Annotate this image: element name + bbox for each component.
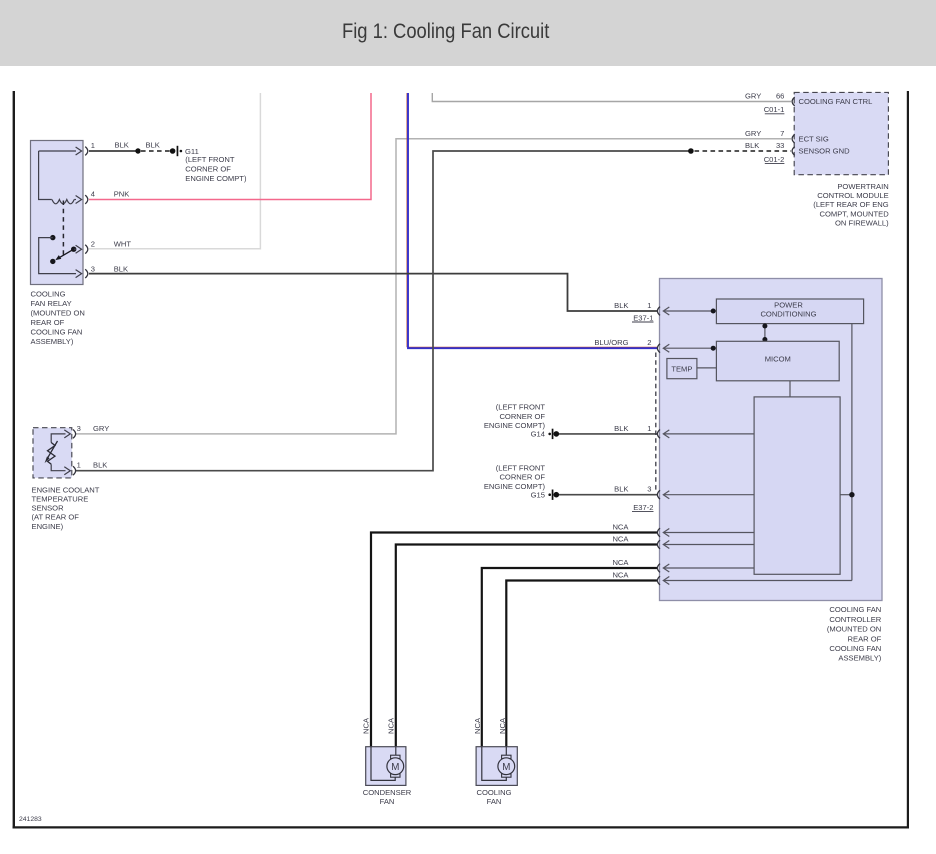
cooling fan internal right wire [505,747,507,756]
relay switch blade [58,249,74,259]
ground G14 splice dot [554,431,560,437]
svg-text:66: 66 [776,92,784,101]
header bar [0,0,936,66]
link micom to output driver [789,381,791,397]
relay internal wire to pin 1 [39,150,76,152]
controller NCA row1 arrow [663,529,669,537]
svg-text:ASSEMBLY): ASSEMBLY) [838,654,881,663]
svg-text:7: 7 [780,129,784,138]
svg-text:COOLING FAN: COOLING FAN [31,328,83,337]
controller pin G14 arrow [663,430,669,438]
svg-text:NCA: NCA [498,717,507,734]
controller internal wire NCA row1 [664,532,754,534]
relay switch pin2 contact dot [71,247,76,252]
svg-text:BLK: BLK [614,301,628,310]
cooling fan internal left wire [482,747,507,781]
relay switch wire to pin 3 [39,238,76,274]
svg-text:1: 1 [91,141,95,150]
svg-text:NCA: NCA [612,535,629,544]
condenser fan motor circle [387,758,404,775]
svg-text:BLK: BLK [114,264,128,273]
controller internal wire NCA row2 [664,544,754,546]
svg-text:COOLING: COOLING [31,289,66,298]
svg-text:G14: G14 [531,430,545,439]
ground G14 bar [552,429,554,439]
relay coil to pin 4 [74,199,76,201]
wire BLK G15 to controller pin3 [558,494,658,496]
link dot upper [762,324,767,329]
svg-text:COOLING: COOLING [476,788,511,797]
sensor pin 3 connector arc [73,430,76,439]
svg-text:3: 3 [77,424,81,433]
wire BLK dashed segment to G11 [141,150,170,152]
module U1 powertrain control module box [794,92,888,174]
svg-text:NCA: NCA [612,558,629,567]
svg-text:2: 2 [91,239,95,248]
svg-text:CORNER OF: CORNER OF [499,412,545,421]
controller internal wire pin E37-1-1 (G14) [664,433,754,435]
svg-text:M: M [391,762,399,773]
svg-text:M: M [502,762,510,773]
svg-text:FAN: FAN [380,797,395,806]
ground G15 splice dot [554,492,560,498]
svg-text:MICOM: MICOM [765,354,791,363]
relay pin 3 connector arc [85,269,88,278]
svg-text:C01-1: C01-1 [764,105,785,114]
svg-text:33: 33 [776,141,784,150]
svg-text:GRY: GRY [745,129,761,138]
svg-text:ENGINE): ENGINE) [32,522,64,531]
relay switch moving contact dot [50,259,55,264]
controller NCA2 connector arc [657,540,660,549]
svg-text:CONTROLLER: CONTROLLER [829,615,881,624]
svg-text:4: 4 [91,190,95,199]
svg-text:GRY: GRY [93,424,109,433]
svg-text:CONDENSER: CONDENSER [363,788,412,797]
svg-text:BLK: BLK [614,424,628,433]
svg-text:(LEFT REAR OF ENG: (LEFT REAR OF ENG [813,200,888,209]
controller right rail from power conditioning [851,324,853,581]
relay coil-to-switch dashed link [62,201,64,257]
wire NCA controller to condenser fan motor positive [371,533,658,747]
svg-text:FAN: FAN [487,797,502,806]
condenser fan internal left wire [371,747,395,781]
relay switch fixed contact dot [50,235,55,240]
svg-text:BLK: BLK [745,141,759,150]
svg-text:G15: G15 [531,490,545,499]
svg-text:BLK: BLK [146,141,160,150]
thermistor RT1 engine coolant temperature sensor box [33,428,72,478]
PCM pin 7 connector arc [792,134,795,143]
svg-text:C01-2: C01-2 [764,155,785,164]
svg-text:CORNER OF: CORNER OF [185,165,231,174]
svg-text:ENGINE COOLANT: ENGINE COOLANT [32,485,100,494]
svg-text:241283: 241283 [19,816,42,823]
svg-text:(MOUNTED ON: (MOUNTED ON [31,308,85,317]
svg-text:NCA: NCA [473,717,482,734]
connector id E37-1 underline [632,321,654,323]
svg-text:BLK: BLK [93,461,107,470]
svg-text:ECT SIG: ECT SIG [799,135,829,144]
cooling fan motor circle [498,758,515,775]
wire WHT relay pin2 to top edge [89,93,260,249]
svg-text:ON FIREWALL): ON FIREWALL) [835,219,889,228]
controller G14 pin connector arc [657,430,660,439]
motor M1 condenser fan box [366,747,406,786]
cooling fan motor top brush [502,755,511,758]
sensor pin 1 arrow [64,467,70,475]
relay switch blade arrowhead [55,255,61,260]
sensor thermistor diagonal arrow [47,441,58,460]
ground G14 small dot [548,433,551,436]
svg-text:WHT: WHT [114,239,132,248]
wire BLK relay pin3 to controller pin1 [89,274,658,311]
controller pin2 connector arc [657,344,660,353]
ground G11 bar [177,146,179,156]
wire NCA controller to condenser fan motor negative [396,545,658,747]
svg-text:E37-2: E37-2 [633,503,653,512]
connector id C01-1 underline [765,113,785,115]
relay coil left leg [39,151,52,200]
sensor internal wire to pin 3 [51,434,65,443]
svg-text:COOLING FAN CTRL: COOLING FAN CTRL [799,97,873,106]
svg-text:BLU/ORG: BLU/ORG [594,338,628,347]
ground G11 splice dot [170,148,176,154]
sensor internal wire to pin 1 [51,464,65,471]
relay pin 4 arrow [76,196,82,204]
junction dot gnd to rail [849,492,854,497]
relay K1 cooling fan relay box [31,141,84,285]
wire PNK relay pin4 to top edge [89,93,371,200]
controller internal wire pin1 to power conditioning [664,310,716,312]
condenser fan motor bottom brush [391,774,400,777]
relay pin 2 connector arc [85,245,88,254]
controller NCA3 connector arc [657,564,660,573]
svg-text:REAR OF: REAR OF [31,318,65,327]
connector E37 dashed grouping line [655,353,657,491]
junction dot pin2 wire [711,346,716,351]
controller NCA row2 arrow [663,541,669,549]
wire BLU/ORG blue from top edge to controller pin2 [408,93,658,348]
controller internal wire pin2 to micom [664,347,716,349]
svg-text:ENGINE COMPT): ENGINE COMPT) [185,174,247,183]
ground G15 small dot [548,493,551,496]
svg-text:GRY: GRY [745,92,761,101]
relay pin 3 arrow [76,270,82,278]
junction dot on SENSOR GND wire [688,148,694,154]
junction dot pin1 wire [711,309,716,314]
svg-text:SENSOR: SENSOR [32,504,65,513]
relay coil L1 scallops [52,200,74,204]
frame right border [907,91,909,829]
module U2 cooling fan controller box [660,279,883,601]
wire BLK relay pin1 to G11 splice [89,150,138,152]
svg-text:(LEFT FRONT: (LEFT FRONT [185,155,235,164]
controller internal wire pin E37-2-3 (G15) [664,494,754,496]
svg-text:SENSOR GND: SENSOR GND [799,147,851,156]
controller pin 1 arrow [663,307,669,315]
controller gnd stub to right rail [840,494,852,496]
power conditioning block [716,299,863,324]
controller pin1 connector arc [657,307,660,316]
relay pin 1 connector arc [85,147,88,156]
svg-text:E37-1: E37-1 [633,313,653,322]
controller internal wire NCA row4 to rail [664,580,852,582]
relay pin 1 arrow [76,147,82,155]
wire BLU/ORG orange stripe [407,93,658,347]
link temp to micom [697,367,717,369]
relay pin 4 connector arc [85,195,88,204]
relay switch wire to pin 2 [74,248,76,250]
ground G11 small dot [180,150,183,153]
svg-text:CORNER OF: CORNER OF [499,473,545,482]
controller NCA4 connector arc [657,576,660,585]
wire BLK G14 to controller pin1 (E37-1 connector) [558,433,658,435]
svg-text:(LEFT FRONT: (LEFT FRONT [496,403,546,412]
svg-text:BLK: BLK [115,141,129,150]
wire BLK ECT sensor pin1 up to SENSOR GND row [76,151,691,471]
svg-text:3: 3 [91,264,95,273]
svg-text:FAN RELAY: FAN RELAY [31,299,72,308]
svg-text:NCA: NCA [612,523,629,532]
svg-text:BLK: BLK [614,485,628,494]
svg-text:1: 1 [647,301,651,310]
relay pin 2 arrow [76,245,82,253]
sensor pin 3 arrow [64,430,70,438]
wire GRY PCM pin66 COOLING FAN CTRL from top edge [432,93,791,102]
sensor thermistor zigzag [48,443,56,465]
svg-text:COOLING FAN: COOLING FAN [829,644,881,653]
svg-text:(LEFT FRONT: (LEFT FRONT [496,463,546,472]
svg-text:REAR OF: REAR OF [848,634,882,643]
svg-text:(AT REAR OF: (AT REAR OF [32,513,80,522]
PCM pin 33 connector arc [792,147,795,156]
svg-text:1: 1 [77,461,81,470]
svg-text:(MOUNTED ON: (MOUNTED ON [827,625,881,634]
controller pin G15 arrow [663,491,669,499]
svg-text:TEMP: TEMP [671,364,692,373]
wire GRY ECT sensor pin3 to PCM ECT SIG [76,139,791,434]
sensor pin 1 connector arc [73,466,76,475]
svg-text:1: 1 [647,424,651,433]
micom block [716,341,839,381]
svg-text:TEMPERATURE: TEMPERATURE [32,495,89,504]
frame left border [13,91,15,829]
condenser fan internal right wire [395,747,397,756]
title: Fig 1: Cooling Fan Circuit [342,20,549,44]
svg-text:COOLING FAN: COOLING FAN [829,605,881,614]
svg-text:POWER: POWER [774,301,803,310]
connector id E37-2 underline [632,511,654,513]
sensor thermistor arrowhead [45,457,50,464]
temp block [667,359,697,379]
link power conditioning to micom [764,324,766,342]
controller pin 2 arrow [663,344,669,352]
svg-text:CONTROL MODULE: CONTROL MODULE [817,191,888,200]
wire NCA controller to cooling fan motor positive [482,568,658,747]
link dot lower [762,337,767,342]
motor M2 cooling fan box [476,747,517,786]
svg-text:COMPT, MOUNTED: COMPT, MOUNTED [820,209,890,218]
wire NCA controller to cooling fan motor negative [506,581,657,747]
svg-text:NCA: NCA [386,717,395,734]
condenser fan motor top brush [391,755,400,758]
svg-text:2: 2 [647,338,651,347]
svg-text:CONDITIONING: CONDITIONING [760,310,816,319]
output driver block [754,397,840,574]
controller NCA1 connector arc [657,528,660,537]
svg-text:ASSEMBLY): ASSEMBLY) [31,337,74,346]
svg-text:POWERTRAIN: POWERTRAIN [837,182,888,191]
frame bottom border [13,826,909,828]
wire BLK dashed segment to PCM SENSOR GND [695,150,792,152]
svg-text:3: 3 [647,485,651,494]
PCM pin 66 connector arc [792,97,795,106]
controller internal wire NCA row3 [664,567,754,569]
svg-text:NCA: NCA [612,571,629,580]
controller NCA row3 arrow [663,564,669,572]
svg-text:PNK: PNK [114,190,130,199]
junction dot on BLK pin1 wire [135,148,140,153]
connector id C01-2 underline [765,163,785,165]
controller NCA row4 arrow [663,577,669,585]
ground G15 bar [552,490,554,500]
svg-text:NCA: NCA [361,717,370,734]
controller G15 pin connector arc [657,490,660,499]
cooling fan motor bottom brush [502,774,511,777]
